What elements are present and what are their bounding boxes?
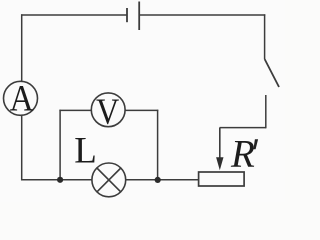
rheostat R' body box (199, 172, 245, 186)
lamp L circle (92, 163, 126, 197)
node junction dot left (57, 177, 63, 183)
wire bottom left segment (21, 179, 92, 181)
wire top-right horizontal (139, 14, 265, 16)
rheostat slider arrow shaft (219, 128, 221, 159)
lamp cross diagonal 1 (97, 168, 121, 192)
wire parallel branch left vertical (59, 110, 61, 180)
lamp cross diagonal 2 (97, 168, 121, 192)
wire left vertical (21, 14, 23, 81)
wire parallel branch top right (125, 109, 158, 111)
wire parallel branch top left (59, 109, 91, 111)
node junction dot right (155, 177, 161, 183)
battery short plate (negative) (126, 8, 128, 22)
wire bottom right segment (126, 179, 199, 181)
wire right vertical upper (264, 14, 266, 59)
rheostat label prime mark (253, 139, 258, 149)
svg-text:V: V (96, 92, 119, 133)
svg-text:A: A (10, 78, 35, 119)
wire horizontal to rheostat slider (220, 127, 267, 129)
wire switch lower contact (265, 95, 267, 128)
wire below ammeter (21, 115, 23, 180)
battery long plate (positive) (138, 2, 140, 31)
ammeter U-A circle (4, 81, 38, 115)
svg-text:L: L (74, 131, 97, 172)
wire top-left horizontal (21, 14, 127, 16)
switch blade (265, 59, 279, 87)
voltmeter U-V circle (91, 93, 125, 127)
rheostat slider arrowhead (216, 157, 223, 170)
svg-text:R: R (230, 133, 255, 176)
wire parallel branch right vertical (157, 110, 159, 180)
